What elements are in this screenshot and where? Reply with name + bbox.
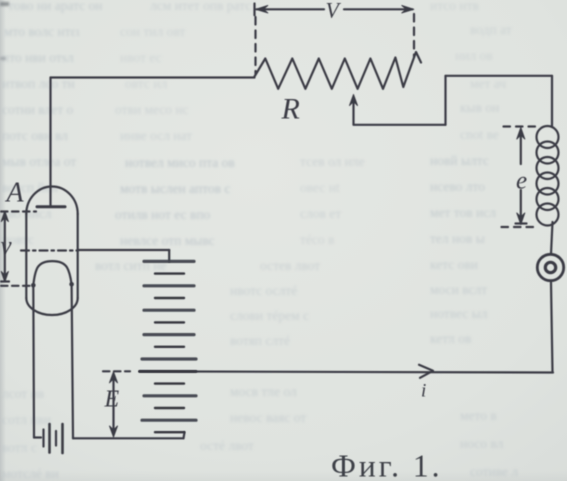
tube envelope right side: [77, 214, 79, 298]
plate (anode): [37, 205, 65, 208]
e bottom crossbar: [516, 222, 527, 224]
svg-text:мотв ыслен аптов с: мотв ыслен аптов с: [120, 181, 230, 196]
battery bar tall: [61, 424, 64, 453]
svg-text:мотслé ви: мотслé ви: [2, 466, 59, 481]
svg-text:нвотс ослтé: нвотс ослтé: [230, 283, 297, 298]
tube envelope dome: [26, 187, 77, 215]
v bottom dashed line: [1, 285, 30, 287]
svg-text:пто нви отsл: пто нви отsл: [2, 50, 74, 65]
filament joint dots: [31, 283, 36, 288]
filament right leg: [72, 285, 73, 439]
svg-text:тово ни аратс он: тово ни аратс он: [8, 0, 103, 13]
filament (cathode) bell: [33, 261, 71, 285]
battery short plate k7: [155, 346, 184, 348]
battery tap plate k9 (joins bottom wire): [140, 370, 197, 373]
svg-text:новй ылтс: новй ылтс: [430, 153, 489, 168]
svg-text:сотни влет о: сотни влет о: [2, 102, 73, 117]
filament left leg: [32, 286, 35, 438]
svg-text:мет ач: мет ач: [470, 76, 506, 91]
edge smudges: [0, 2, 9, 60]
tube envelope left side: [25, 214, 27, 298]
battery short plate k1: [155, 272, 184, 274]
wire: bottom return (battery tap to right column): [140, 371, 554, 372]
v top dashed line: [1, 210, 36, 212]
battery long plate k0: [144, 260, 194, 263]
battery stack (anode battery): [140, 261, 197, 432]
terminal circle (jack): [537, 254, 563, 280]
measurement E: vertical arrow: [112, 375, 114, 435]
svg-text:отилв нот ес впо: отилв нот ес впо: [115, 207, 211, 222]
svg-text:слов ет: слов ет: [300, 206, 341, 221]
wire: bottom lead from filament battery to main battery bottom: [73, 437, 184, 439]
svg-text:кыв он: кыв он: [460, 100, 499, 115]
measurement v beside tube: vertical arrow: [4, 214, 6, 280]
svg-text:мет тов исл: мет тов исл: [430, 205, 496, 220]
potentiometer wiper arrow: [352, 99, 354, 125]
battery long plate k8: [142, 357, 196, 360]
svg-text:инве осл нат: инве осл нат: [120, 128, 192, 143]
svg-text:e: e: [516, 168, 527, 195]
svg-text:водп ат: водп ат: [470, 22, 512, 37]
v bottom crossbar: [1, 280, 9, 282]
svg-text:итсо нтв: итсо нтв: [430, 0, 479, 13]
dashed vertical from V to resistor left: [254, 17, 256, 74]
svg-text:A: A: [5, 178, 25, 209]
svg-text:E: E: [104, 387, 120, 413]
battery long plate k11: [144, 394, 196, 397]
svg-text:Фиг. 1.: Фиг. 1.: [331, 449, 443, 481]
svg-text:кетπ ов: кетπ ов: [430, 331, 471, 346]
svg-text:нсево лто: нсево лто: [430, 179, 485, 194]
resistor R zigzag (potentiometer): [255, 52, 422, 89]
svg-text:сотл пви: сотл пви: [2, 412, 51, 427]
V left arrowhead: [256, 6, 268, 13]
svg-text:тсев ол нπе: тсев ол нπе: [300, 154, 365, 169]
battery short plate k14: [155, 431, 184, 433]
battery short plate k3: [155, 297, 184, 299]
wire: wiper to right step: [354, 124, 446, 126]
wire: plate lead vertical into tube: [49, 78, 51, 207]
svg-text:слови тéрем с: слови тéрем с: [230, 308, 309, 323]
svg-text:потс овн вл: потс овн вл: [2, 128, 68, 143]
svg-text:невлсе отп мывс: невлсе отп мывс: [120, 233, 215, 248]
svg-text:лсм итет опв ратс: лсм итет опв ратс: [150, 0, 251, 13]
svg-text:R: R: [281, 93, 300, 126]
battery long plate k13: [142, 419, 196, 422]
hook up to battery bottom plate: [184, 432, 185, 438]
svg-text:вотπ с: вотπ с: [2, 440, 37, 455]
tube envelope bottom dome: [26, 298, 77, 315]
current arrow i: [419, 365, 433, 378]
svg-text:сnot ве: сnot ве: [460, 127, 499, 142]
svg-text:сотиве л: сотиве л: [470, 464, 518, 479]
svg-text:овес нt: овес нt: [300, 180, 340, 195]
battery bar short: [55, 431, 57, 446]
battery long plate k2: [144, 284, 194, 287]
svg-text:носо вл: носо вл: [460, 436, 504, 451]
e top dashes: [504, 125, 538, 127]
svg-text:нотвел мисо пта ов: нотвел мисо пта ов: [125, 155, 235, 170]
caption: [331, 449, 443, 481]
dashed vertical from V to resistor right: [413, 14, 415, 57]
svg-text:кетс ови: кетс ови: [430, 257, 478, 272]
svg-text:отви месо нс: отви месо нс: [115, 102, 189, 117]
battery bar tall: [48, 424, 51, 453]
svg-text:моси вслт: моси вслт: [430, 282, 487, 297]
svg-text:v: v: [1, 233, 13, 260]
svg-text:мосв тπе ол: мосв тπе ол: [230, 384, 297, 399]
svg-text:остев лвот: остев лвот: [260, 258, 320, 273]
e bottom dashes: [502, 226, 537, 228]
svg-text:мто волс нтει: мто волс нтει: [4, 24, 80, 39]
grid dash-dot line inside tube: [21, 249, 78, 251]
svg-text:мето в: мето в: [460, 408, 497, 423]
svg-text:остé лвот: остé лвот: [200, 438, 254, 453]
wire: down to coil: [551, 76, 553, 127]
svg-text:вотяп слтé: вотяп слтé: [230, 333, 290, 348]
measurement e: vertical arrow beside coil: [520, 130, 522, 164]
battery short plate k5: [155, 321, 184, 323]
E top dashes: [103, 370, 130, 372]
V right arrowhead: [402, 6, 414, 13]
coil e (inductor turns): [537, 126, 559, 148]
svg-text:невос ваяс от: невос ваяс от: [230, 410, 306, 425]
wire: grid to battery stack: [78, 249, 169, 251]
svg-text:тел нов ы: тел нов ы: [430, 231, 485, 246]
battery short plate k10: [155, 382, 184, 384]
svg-text:нил ов: нил ов: [455, 48, 493, 63]
svg-text:лсот ив: лсот ив: [2, 386, 44, 401]
measurement V: horizontal line with arrows at top: [257, 8, 325, 10]
wire: drop to battery top: [168, 250, 170, 262]
svg-text:i: i: [421, 381, 426, 402]
svg-text:нвот ес: нвот ес: [120, 50, 162, 65]
svg-text:сон тил овт: сон тил овт: [120, 24, 185, 39]
filament battery (ground group) bend: [34, 436, 41, 438]
battery long plate k6: [144, 333, 194, 336]
battery long plate k4: [144, 309, 194, 312]
svg-text:нотвес ыл: нотвес ыл: [430, 306, 488, 321]
wire: step vertical up: [444, 76, 446, 125]
battery short plate k12: [155, 407, 184, 409]
battery bar short: [42, 430, 44, 447]
svg-text:тéсо в: тéсо в: [300, 232, 334, 247]
V left end tick: [253, 4, 255, 16]
wire: step horizontal to right edge column: [446, 75, 553, 77]
wire: coil bottom to terminal: [551, 222, 553, 254]
wire: terminal down to bottom wire: [551, 283, 553, 373]
svg-text:мыв отлеа от: мыв отлеа от: [2, 154, 76, 169]
wire: top-left horizontal from tube plate lead to resistor: [51, 76, 255, 78]
